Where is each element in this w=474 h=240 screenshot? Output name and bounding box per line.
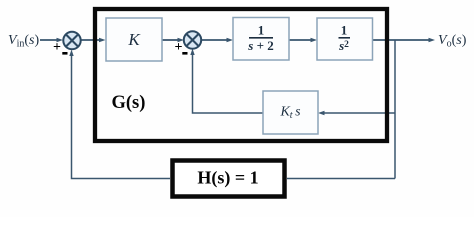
svg-text:Vo(s): Vo(s): [438, 33, 467, 50]
wire block Kt s to summer S2: [190, 49, 263, 114]
wire block 1/(s+2) to block 1/s^2: [289, 38, 317, 42]
summing junction S2: [184, 31, 201, 48]
wire summer S2 to block 1/(s+2): [201, 38, 233, 42]
summing junction S1: [63, 32, 80, 49]
svg-text:K: K: [127, 30, 141, 49]
block H(s) = 1: [173, 161, 285, 197]
svg-text:1: 1: [258, 23, 265, 38]
wire block H(s) to summer S1: [69, 50, 170, 179]
svg-text:Vin(s): Vin(s): [8, 33, 39, 50]
block 1/s^2: [317, 18, 373, 60]
sign + at S1: [53, 40, 61, 55]
wire input to summer S1: [40, 38, 63, 42]
boundary box G(s): [95, 9, 387, 141]
svg-text:+: +: [175, 40, 183, 55]
svg-text:H(s) = 1: H(s) = 1: [197, 168, 258, 189]
svg-text:s + 2: s + 2: [247, 38, 273, 53]
wire takeoff to block Kt s: [318, 111, 395, 115]
sign + at S2: [175, 40, 183, 55]
wire summer S1 to block K: [81, 38, 106, 42]
label Vin(s): [8, 33, 39, 50]
svg-text:+: +: [53, 40, 61, 55]
label Vo(s): [438, 33, 467, 50]
sign - at S2: [182, 52, 187, 55]
sign - at S1: [62, 52, 67, 55]
wire output takeoff vertical: [394, 40, 396, 179]
gain block K: [106, 18, 162, 61]
block 1/(s+2): [233, 18, 289, 61]
wire output to Vo(s): [372, 38, 435, 42]
svg-text:G(s): G(s): [112, 93, 146, 113]
wire block K to summer S2: [162, 38, 184, 42]
label G(s): [112, 93, 146, 113]
svg-text:1: 1: [341, 23, 348, 38]
block Kt s rate feedback: [263, 91, 318, 134]
wire outer feedback bottom: [287, 178, 395, 180]
